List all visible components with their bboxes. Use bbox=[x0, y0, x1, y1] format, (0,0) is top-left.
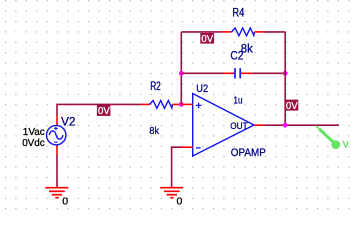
resistor R4 bbox=[232, 28, 255, 36]
resistor R4 pin stub right bbox=[255, 31, 264, 33]
op-amp - input pin stub bbox=[182, 146, 193, 148]
svg-text:8k: 8k bbox=[149, 125, 159, 137]
bias marker 0V (top rail) bbox=[200, 33, 214, 45]
op-amp output pin stub bbox=[254, 124, 264, 126]
svg-text:1u: 1u bbox=[233, 95, 242, 107]
wire from V2 top corner to R2 bbox=[57, 104, 141, 115]
bias marker 0V (input net) bbox=[97, 105, 111, 117]
junction node at op-amp + input bbox=[179, 102, 184, 107]
resistor R2 bbox=[150, 101, 173, 109]
svg-text:R4: R4 bbox=[232, 8, 244, 20]
op-amp + input pin stub bbox=[181, 103, 193, 105]
resistor R2 pin stub right bbox=[173, 103, 182, 105]
op-amp U2 triangle bbox=[193, 94, 254, 157]
wire junction up to feedback loop bbox=[180, 32, 182, 105]
capacitor C2 bbox=[235, 68, 240, 78]
resistor R2 pin stub left bbox=[141, 103, 150, 105]
svg-text:V: V bbox=[343, 140, 350, 150]
voltage probe V bbox=[316, 126, 340, 149]
svg-text:0V: 0V bbox=[286, 101, 298, 112]
wire V2 bottom pin stub bbox=[56, 145, 58, 155]
wire - input to ground bbox=[172, 147, 182, 187]
junction node C2 right bbox=[283, 71, 288, 76]
wire top rail left segment bbox=[181, 31, 222, 33]
bias marker 0V (output net) bbox=[285, 100, 299, 112]
ground under V2 bbox=[45, 188, 68, 198]
wire V2 top pin stub bbox=[56, 116, 58, 126]
svg-text:V2: V2 bbox=[61, 116, 76, 128]
junction node C2 left bbox=[179, 71, 184, 76]
wire C2 row left bbox=[181, 72, 224, 74]
svg-text:C2: C2 bbox=[230, 50, 243, 62]
op-amp - marker bbox=[196, 147, 201, 149]
voltage source V2 bbox=[47, 125, 66, 144]
svg-text:0: 0 bbox=[177, 195, 183, 207]
wire V2 bottom to ground bbox=[56, 155, 58, 187]
svg-text:OUT: OUT bbox=[230, 121, 248, 131]
svg-text:0: 0 bbox=[62, 195, 68, 207]
svg-text:0V: 0V bbox=[201, 34, 213, 45]
svg-text:0Vdc: 0Vdc bbox=[22, 137, 45, 149]
wire top rail right segment bbox=[264, 31, 286, 33]
capacitor C2 pin stub left bbox=[224, 72, 234, 74]
resistor R4 pin stub left bbox=[222, 31, 232, 33]
wire output bbox=[264, 124, 339, 126]
svg-text:R2: R2 bbox=[150, 81, 161, 93]
op-amp + marker bbox=[196, 103, 202, 109]
wire right rail down bbox=[284, 32, 286, 125]
svg-text:U2: U2 bbox=[196, 83, 208, 95]
capacitor C2 pin stub right bbox=[241, 72, 252, 74]
wire C2 row right bbox=[252, 72, 285, 74]
ground under op-amp - input bbox=[160, 188, 183, 198]
svg-text:0V: 0V bbox=[98, 106, 110, 117]
junction node output bbox=[283, 123, 288, 128]
svg-text:OPAMP: OPAMP bbox=[231, 147, 266, 159]
